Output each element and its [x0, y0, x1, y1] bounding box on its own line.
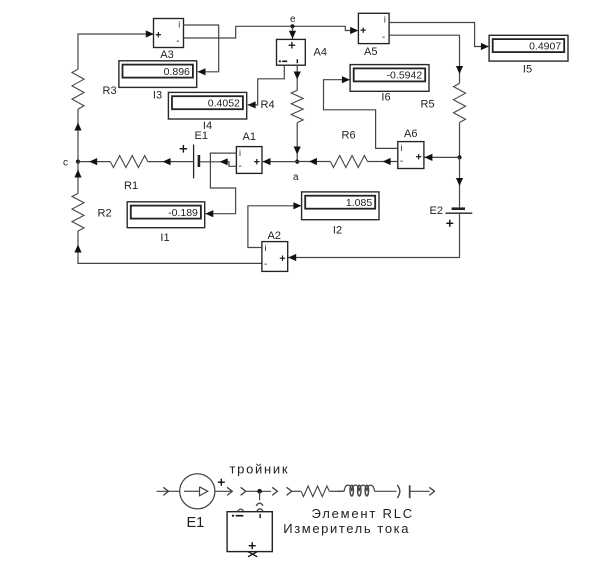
svg-text:E2: E2 [430, 205, 443, 217]
svg-text:A6: A6 [404, 128, 417, 140]
svg-text:I3: I3 [153, 90, 162, 102]
battery E2 [446, 209, 473, 214]
svg-text:-0.5942: -0.5942 [387, 70, 423, 82]
wire R2 bottom to bottom-left corner, arrow up [78, 231, 262, 263]
wire R4 bottom to node a [296, 123, 298, 162]
svg-text:c: c [63, 158, 68, 169]
wire A3 i-output to display I3 [184, 25, 219, 72]
wire R5 bottom to junction [459, 123, 461, 158]
svg-text:Измеритель тока: Измеритель тока [283, 521, 410, 536]
display I6 value -0.5942 [350, 65, 429, 92]
wire R1 to node c [78, 161, 110, 163]
svg-text:R5: R5 [421, 99, 435, 111]
wire A6 i-output to display I6 [324, 80, 398, 149]
resistor R2 [72, 193, 84, 231]
wire node c down to R2, arrow up [77, 162, 79, 194]
svg-text:-: - [176, 36, 179, 47]
svg-text:E1: E1 [187, 515, 205, 531]
battery E1 [194, 145, 199, 179]
ammeter A3 [154, 19, 184, 48]
legend: current meter block (Измеритель тока) [227, 509, 272, 557]
wire A4 minus-output through R4 to node a [296, 65, 298, 90]
svg-text:I2: I2 [333, 225, 342, 237]
svg-text:R3: R3 [103, 85, 117, 97]
node a [295, 160, 299, 164]
label E2 plus [446, 220, 453, 227]
wire node e down into A4 [292, 26, 294, 39]
ammeter A2 [262, 242, 288, 272]
wire A5 i-output to display I5 [389, 23, 488, 47]
legend: RLC element input [287, 487, 292, 495]
svg-text:A5: A5 [364, 46, 377, 58]
display I4 value 0.4052 [168, 92, 246, 119]
wire E1 to R1 [148, 161, 194, 163]
legend: source E1 circle [180, 474, 215, 509]
display I1 value -0.189 [127, 202, 205, 228]
ammeter A6 [398, 142, 424, 169]
svg-text:E1: E1 [195, 130, 208, 142]
wire junction down to battery E2 [459, 157, 461, 207]
svg-text:-: - [382, 32, 385, 43]
svg-text:R4: R4 [261, 99, 275, 111]
svg-text:I6: I6 [381, 92, 390, 104]
wire A1 minus-output to battery E1 [199, 162, 236, 167]
wire left rail top corner to A3 input [78, 34, 153, 69]
display I2 value 1.085 [302, 192, 379, 220]
svg-text:0.896: 0.896 [164, 66, 190, 78]
svg-text:I1: I1 [160, 232, 169, 244]
svg-text:-: - [239, 161, 242, 172]
wire A5 minus-output to R5 [389, 35, 459, 83]
svg-text:i: i [178, 20, 180, 30]
legend: capacitor of RLC chain [397, 485, 400, 498]
wire A2 i-output to display I2 [248, 206, 301, 248]
svg-text:0.4052: 0.4052 [208, 98, 240, 110]
wire R3 bottom to node c, arrow up [77, 109, 79, 162]
resistor R3 [72, 69, 84, 109]
wire E2 to A2 plus-input [288, 213, 459, 257]
legend: tee branch down with open arrow [259, 491, 261, 500]
svg-text:a: a [293, 172, 299, 183]
svg-text:A4: A4 [314, 47, 327, 59]
svg-text:i: i [400, 143, 402, 153]
svg-text:-: - [400, 156, 403, 167]
resistor R5 [454, 83, 466, 122]
svg-text:тройник: тройник [230, 462, 290, 477]
svg-text:A3: A3 [160, 49, 173, 61]
svg-text:0.4907: 0.4907 [529, 40, 561, 52]
resistor R6 [330, 156, 367, 168]
svg-text:A2: A2 [268, 230, 281, 242]
wire A3 minus-output to node e and ammeter A5 [184, 26, 358, 38]
node c [76, 160, 80, 164]
svg-text:e: e [290, 14, 296, 25]
resistor R4 [291, 90, 303, 122]
legend: resistor of RLC chain [301, 486, 329, 497]
legend: E1 output wire with plus [215, 490, 232, 492]
svg-text:R2: R2 [98, 208, 112, 220]
svg-text:1.085: 1.085 [346, 197, 372, 209]
legend: tee junction [241, 487, 246, 495]
legend: source E1 symbol input port [157, 490, 180, 492]
svg-text:i: i [265, 243, 267, 253]
svg-text:Элемент RLC: Элемент RLC [312, 506, 414, 521]
junction node R5/E2/A6 [457, 155, 461, 159]
ammeter A5 [358, 13, 389, 43]
svg-text:R1: R1 [124, 180, 138, 192]
svg-text:-0.189: -0.189 [168, 207, 198, 219]
wire A4 i-output to display I4 [248, 65, 284, 105]
svg-text:R6: R6 [342, 130, 356, 142]
svg-text:I5: I5 [523, 64, 532, 76]
svg-text:i: i [384, 15, 386, 25]
display I5 value 0.4907 [489, 35, 568, 61]
svg-text:-: - [264, 259, 267, 270]
resistor R1 [110, 156, 148, 168]
svg-text:A1: A1 [243, 131, 256, 143]
wire junction to A6 plus-input [425, 156, 460, 158]
label E1 plus [180, 145, 188, 153]
ammeter A1 [236, 147, 262, 174]
wire node a to A1 plus-input [263, 161, 298, 163]
wire R6 to node a [297, 161, 330, 163]
display I3 value 0.896 [119, 61, 197, 88]
wire A6 minus-output to R6 [368, 161, 398, 163]
ammeter A4 (rotated) [277, 39, 306, 65]
legend: inductor of RLC chain [344, 485, 374, 491]
node e [290, 24, 294, 28]
wire A1 i-output to display I1 [206, 153, 237, 214]
svg-text:i: i [239, 148, 241, 158]
